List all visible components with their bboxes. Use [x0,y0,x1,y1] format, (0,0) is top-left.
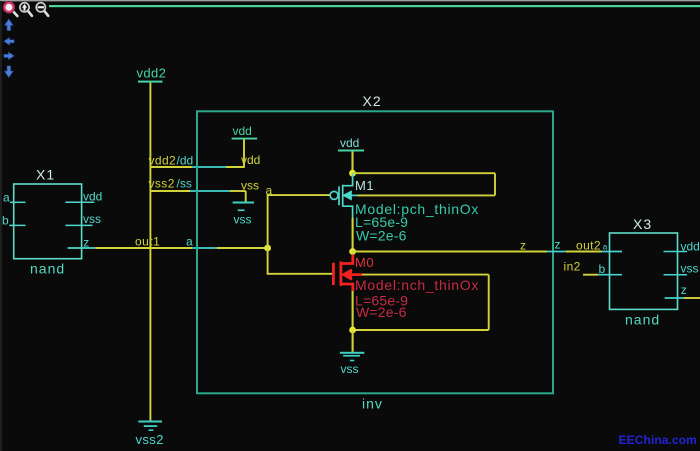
wire node z to M0 drain [352,252,354,257]
window left edge strip [0,1,2,451]
X1 pin b [2,214,26,228]
svg-text:X3: X3 [633,216,652,232]
svg-text:a: a [266,183,273,197]
svg-text:vdd: vdd [83,189,102,203]
junction M0 source node [349,327,356,334]
svg-text:out2: out2 [576,239,601,253]
svg-text:vss: vss [234,213,252,227]
wire vdd drop [243,140,245,168]
svg-text:z: z [520,239,526,253]
wire M0 source down [352,291,354,330]
junction node z [349,248,356,255]
instance X2 inv symbol box [197,111,553,393]
svg-text:vdd: vdd [233,124,252,138]
wire M1 bulk loop right [494,173,496,195]
svg-text:vdd: vdd [241,153,260,167]
svg-text:a: a [3,191,10,205]
wire X3 z output [684,297,700,299]
X1 pin z [68,236,96,250]
svg-text:vdd: vdd [681,240,700,254]
X3 pin vdd [664,240,700,254]
svg-text:z: z [681,283,687,297]
svg-text:z: z [555,238,561,252]
window top light line [0,0,700,1]
supply vss symbol inside X2 (upper left) [233,202,254,227]
X3 pin a stub [602,251,623,253]
transistor M1 (pch) [330,173,357,218]
svg-text:a: a [603,242,608,251]
wire M0 bulk loop bottom [353,329,489,331]
instance X1 nand symbol box [14,184,82,259]
svg-text:nand: nand [30,261,65,277]
pan left arrow button [4,37,14,45]
svg-text:vss: vss [241,178,259,192]
svg-text:vss2: vss2 [136,432,164,447]
transistor M0 (nch, highlighted) [333,255,362,292]
svg-text:a: a [186,234,193,248]
supply vdd symbol above M1 [338,136,364,152]
wire M0 bulk to loop [362,274,489,276]
svg-text:out1: out1 [135,234,160,248]
svg-text:vss2: vss2 [149,176,175,190]
svg-text:W=2e-6: W=2e-6 [356,304,407,320]
wire node a down [267,248,269,274]
svg-text:X2: X2 [363,93,382,109]
svg-text:in2: in2 [564,260,581,274]
X1 pin a [3,191,26,205]
wire node a up [267,195,269,248]
svg-text:vss: vss [83,212,101,226]
wire a to M1 gate [267,194,330,196]
junction node a [264,245,271,252]
svg-text:W=2e-6: W=2e-6 [356,228,407,244]
instance X3 nand symbol box [610,233,678,309]
wire vss drop [245,191,247,202]
svg-text:inv: inv [362,396,383,412]
X2 pin z stub [547,251,566,253]
X1 pin vdd [65,189,102,203]
X1 pin vss [65,212,101,226]
svg-text:X1: X1 [36,167,55,183]
svg-text:b: b [2,214,9,228]
wire out1 (X1.z to node a) [95,247,192,249]
wire z to X2 edge [353,251,547,253]
wire to vss ground [352,330,354,352]
wire out1 continued [217,247,268,249]
pan up arrow button [4,19,13,31]
X3 pin vss [664,262,699,276]
junction M1 source node [349,170,356,177]
toolbar zoom-fit icon (red magnifier) [3,1,17,16]
toolbar zoom-in icon [20,3,32,16]
wire M0 bulk loop right [488,275,490,330]
wire vss2 to X2.ss [151,190,246,192]
svg-text:vdd: vdd [340,136,359,150]
svg-text:M1: M1 [355,178,374,193]
wire a to M0 gate [267,273,332,275]
wire M1 bulk loop top [353,172,496,174]
svg-text:M0: M0 [355,255,374,270]
svg-text:Model:nch_thinOx: Model:nch_thinOx [355,277,479,293]
wire vdd to M1 source [351,152,353,174]
svg-text:/ss: /ss [177,176,192,190]
wire M1 drain to node z [352,218,354,252]
pan down arrow button [4,66,13,78]
X2 pin a stub [192,247,217,249]
wire vdd2 vertical rail [149,83,151,421]
svg-text:nand: nand [625,312,660,328]
wire z / out2 [566,251,602,253]
svg-text:z: z [83,236,89,250]
supply vdd2 symbol (top left) [137,66,167,83]
svg-text:vdd2: vdd2 [149,154,177,168]
wire in2 [583,274,598,276]
wire M1 bulk loop bottom [358,194,496,196]
svg-text:/dd: /dd [177,154,194,168]
ground vss2 symbol (bottom left) [136,421,164,447]
svg-text:vss: vss [341,362,359,376]
X3 pin b stub [598,274,622,276]
pan right arrow button [4,52,14,60]
wire vdd2 to X2.dd [150,166,244,168]
toolbar teal separator line [49,5,700,7]
X3 pin z stub [665,297,684,299]
svg-text:EEChina.com: EEChina.com [619,433,697,447]
toolbar zoom-out icon [36,3,48,16]
svg-text:vss: vss [681,262,699,276]
ground vss symbol below M0 [340,352,364,376]
svg-text:b: b [599,262,606,276]
supply vdd symbol inside X2 (upper left) [232,124,258,140]
svg-text:vdd2: vdd2 [137,66,167,81]
